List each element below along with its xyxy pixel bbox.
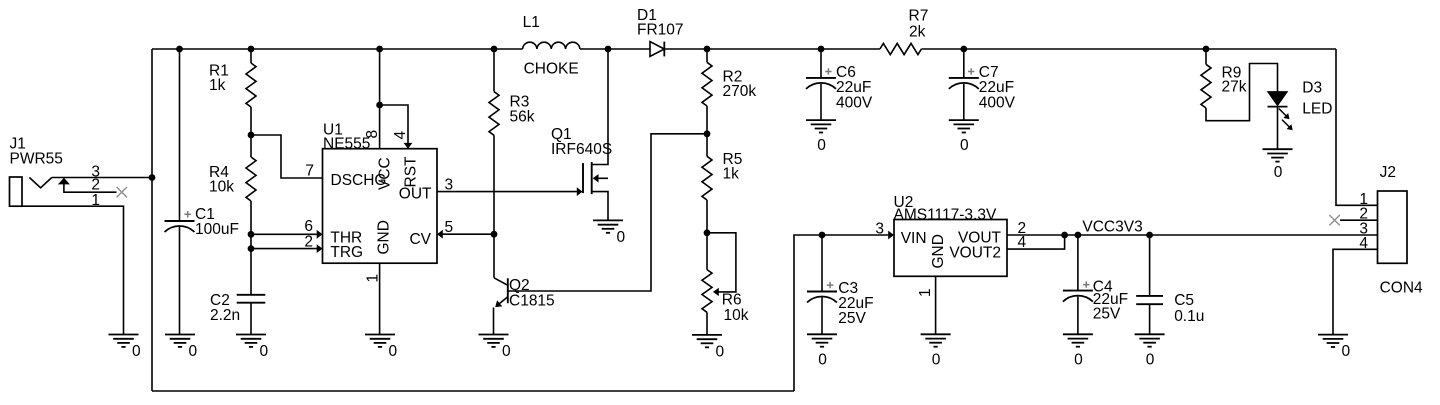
wire J2 pin 4 to ground bbox=[1333, 249, 1378, 334]
transistor Q2 C1815 bbox=[494, 277, 555, 335]
connector J1 PWR55 power jack bbox=[10, 136, 124, 335]
capacitor C1 100uF bbox=[165, 206, 239, 238]
wire top rail to R9 bbox=[1205, 49, 1207, 64]
svg-text:100uF: 100uF bbox=[195, 221, 239, 238]
junction R1-R4 node bbox=[248, 132, 255, 139]
wire top rail to R1 bbox=[250, 49, 252, 63]
svg-text:0: 0 bbox=[818, 351, 827, 368]
wire U2 VOUT to J2 pin 3 (VCC3V3 net) bbox=[1007, 234, 1378, 236]
capacitor C5 0.1u bbox=[1136, 292, 1204, 325]
svg-text:J2: J2 bbox=[1380, 164, 1396, 181]
svg-text:270k: 270k bbox=[723, 83, 757, 100]
ground below C2 bbox=[236, 335, 269, 361]
svg-text:VCC: VCC bbox=[377, 157, 394, 190]
svg-text:RST: RST bbox=[403, 156, 420, 188]
svg-text:R6: R6 bbox=[722, 292, 742, 309]
svg-text:C5: C5 bbox=[1174, 292, 1194, 309]
wire D3 cathode to ground bbox=[1277, 107, 1279, 150]
resistor R2 270k bbox=[702, 62, 756, 106]
junction C7 tap on top rail bbox=[960, 46, 967, 53]
svg-text:R7: R7 bbox=[909, 8, 929, 25]
svg-text:D3: D3 bbox=[1302, 80, 1322, 97]
ground below C6 bbox=[806, 120, 836, 154]
wire C3 to ground bbox=[821, 298, 823, 335]
svg-text:TRG: TRG bbox=[330, 244, 363, 261]
wire VCC input top rail bbox=[152, 48, 1336, 50]
svg-text:8: 8 bbox=[364, 130, 381, 139]
svg-text:L1: L1 bbox=[523, 14, 540, 31]
svg-text:LED: LED bbox=[1302, 100, 1332, 117]
wire C2 to ground bbox=[250, 303, 252, 335]
wire C7 to ground bbox=[963, 84, 965, 120]
arrow into U2 VIN bbox=[888, 231, 894, 240]
junction THR tap bbox=[248, 231, 255, 238]
wire C4 to ground bbox=[1077, 297, 1079, 335]
svg-text:1: 1 bbox=[91, 192, 100, 209]
junction Q1 drain / D1 anode on top rail bbox=[605, 46, 612, 53]
junction C1 tap on top rail bbox=[176, 46, 183, 53]
svg-text:IRF640S: IRF640S bbox=[551, 141, 612, 158]
wire R3 to CV node and Q2 base bbox=[493, 135, 495, 277]
svg-text:1k: 1k bbox=[209, 77, 226, 94]
svg-text:0: 0 bbox=[960, 137, 969, 154]
wire left rail from top rail to bottom rail bbox=[151, 49, 153, 391]
ground below U2 bbox=[921, 334, 951, 368]
wire top rail to R3 bbox=[493, 49, 495, 92]
no-connect X on J1 pin 2 bbox=[117, 187, 127, 197]
svg-text:0.1u: 0.1u bbox=[1174, 308, 1204, 325]
svg-text:27k: 27k bbox=[1222, 79, 1247, 96]
svg-text:0: 0 bbox=[1074, 351, 1083, 368]
wire R2 to R5 bbox=[706, 106, 708, 156]
wire R1 to R4 bbox=[250, 107, 252, 157]
wire U1 pin 4 RST bbox=[380, 105, 413, 149]
svg-text:CV: CV bbox=[409, 231, 431, 248]
svg-text:CHOKE: CHOKE bbox=[524, 61, 579, 78]
wire C1 to ground bbox=[179, 227, 181, 335]
inductor L1 CHOKE bbox=[523, 14, 580, 77]
ground below C5 bbox=[1135, 334, 1165, 368]
svg-text:400V: 400V bbox=[979, 94, 1016, 111]
wire U2 pin 1 GND to ground bbox=[935, 276, 937, 334]
wire J1 pin 3 to left rail bbox=[52, 177, 152, 179]
svg-text:2: 2 bbox=[304, 234, 313, 251]
junction R1 top on top rail bbox=[248, 46, 255, 53]
ground below Q1 bbox=[593, 220, 626, 246]
ground below R6 bbox=[692, 335, 725, 361]
resistor R7 2k bbox=[880, 8, 928, 55]
wire top rail to C7 bbox=[963, 49, 965, 78]
svg-text:0: 0 bbox=[132, 343, 141, 360]
capacitor C3 22uF 25V bbox=[807, 280, 874, 327]
wire VCC3V3 to C5 bbox=[1149, 235, 1151, 296]
op-amp timer U1 NE555 bbox=[304, 122, 453, 283]
junction C3 tap bbox=[819, 232, 826, 239]
svg-text:0: 0 bbox=[716, 343, 725, 360]
ground below Q2 bbox=[479, 335, 512, 361]
svg-text:FR107: FR107 bbox=[637, 22, 684, 39]
wire R1-R4 node to U1 pin 7 bbox=[251, 135, 323, 178]
svg-text:0: 0 bbox=[932, 351, 941, 368]
svg-text:GND: GND bbox=[375, 220, 392, 254]
junction U1 VCC tap on top rail bbox=[376, 46, 383, 53]
svg-text:VOUT2: VOUT2 bbox=[949, 244, 1001, 261]
svg-text:C1815: C1815 bbox=[509, 293, 555, 310]
junction VOUT2 join bbox=[1061, 232, 1068, 239]
LED D3 bbox=[1268, 80, 1333, 131]
svg-text:10k: 10k bbox=[209, 179, 234, 196]
svg-text:0: 0 bbox=[817, 137, 826, 154]
resistor R1 1k bbox=[209, 63, 256, 108]
svg-text:4: 4 bbox=[392, 131, 409, 140]
wire R9 to D3 anode bbox=[1206, 64, 1278, 121]
wire C5 to ground bbox=[1149, 304, 1151, 334]
ground below C7 bbox=[949, 120, 979, 154]
wire J2 pin 2 stub bbox=[1340, 219, 1378, 221]
wire riser from bottom rail to U2 VIN bbox=[794, 235, 889, 391]
svg-text:1k: 1k bbox=[723, 166, 740, 183]
svg-text:VIN: VIN bbox=[901, 230, 927, 247]
ground below C3 bbox=[807, 334, 837, 368]
wire top rail to C6 bbox=[820, 49, 822, 78]
wire R5 to R6 bbox=[706, 200, 708, 270]
junction R9 top on top rail bbox=[1203, 46, 1210, 53]
junction TRG tap bbox=[248, 245, 255, 252]
junction C4 tap bbox=[1075, 232, 1082, 239]
junction R2 top on top rail bbox=[704, 46, 711, 53]
svg-text:0: 0 bbox=[260, 343, 269, 360]
wire top rail to C1 bbox=[179, 49, 181, 221]
wire R6 to ground bbox=[706, 312, 708, 335]
ground below C1 bbox=[165, 335, 198, 361]
capacitor C7 22uF 400V bbox=[949, 64, 1016, 111]
capacitor C6 22uF 400V bbox=[806, 64, 873, 111]
connector J2 CON4 bbox=[1359, 164, 1423, 296]
junction R3 top on top rail bbox=[491, 46, 498, 53]
svg-text:CON4: CON4 bbox=[1380, 279, 1423, 296]
svg-text:25V: 25V bbox=[838, 310, 866, 327]
no-connect X on J2 pin 2 bbox=[1329, 215, 1339, 225]
potentiometer R6 10k bbox=[702, 233, 749, 324]
wire R4 to C2 bbox=[250, 201, 252, 295]
wire bottom supply rail bbox=[152, 390, 794, 392]
wire VIN node to C3 bbox=[821, 235, 823, 292]
svg-text:0: 0 bbox=[189, 343, 198, 360]
junction C6 tap on top rail bbox=[818, 46, 825, 53]
svg-text:2k: 2k bbox=[909, 24, 926, 41]
svg-text:GND: GND bbox=[930, 234, 947, 268]
svg-text:0: 0 bbox=[502, 343, 511, 360]
ground below C4 bbox=[1063, 334, 1093, 368]
svg-text:400V: 400V bbox=[836, 94, 873, 111]
wire Q2 collector to R2-R5 node bbox=[508, 134, 707, 291]
wire U1 pin 1 GND to ground bbox=[379, 263, 381, 334]
ground below D3 bbox=[1263, 149, 1293, 181]
svg-text:0: 0 bbox=[1342, 343, 1351, 360]
diode D1 FR107 bbox=[637, 7, 684, 56]
svg-text:0: 0 bbox=[617, 229, 626, 246]
wire to U1 pin 6 THR bbox=[251, 230, 323, 239]
junction C5 tap bbox=[1146, 232, 1153, 239]
wire C6 to ground bbox=[820, 84, 822, 120]
svg-text:0: 0 bbox=[389, 343, 398, 360]
resistor R3 56k bbox=[489, 92, 535, 136]
junction R5-R6 wiper node bbox=[704, 229, 711, 236]
svg-text:10k: 10k bbox=[724, 307, 749, 324]
svg-text:1: 1 bbox=[917, 288, 934, 297]
svg-text:7: 7 bbox=[305, 163, 314, 180]
resistor R9 27k bbox=[1201, 64, 1247, 108]
wire top rail to J2 pin 1 bbox=[1336, 49, 1378, 205]
wire U1 pin 3 OUT to Q1 gate bbox=[437, 187, 583, 196]
junction J1 pin 3 on left rail bbox=[149, 174, 156, 181]
svg-text:6: 6 bbox=[304, 218, 313, 235]
ground below U1 bbox=[365, 335, 398, 361]
svg-text:3: 3 bbox=[875, 221, 884, 238]
svg-text:25V: 25V bbox=[1093, 306, 1121, 323]
svg-text:VCC3V3: VCC3V3 bbox=[1082, 218, 1142, 235]
svg-text:PWR55: PWR55 bbox=[10, 150, 63, 167]
junction CV node bbox=[491, 231, 498, 238]
svg-text:0: 0 bbox=[1146, 351, 1155, 368]
junction pin8-pin4 node bbox=[376, 102, 383, 109]
resistor R5 1k bbox=[702, 151, 742, 200]
ground below J2 pin 4 bbox=[1318, 335, 1351, 361]
svg-text:AMS1117-3.3V: AMS1117-3.3V bbox=[894, 206, 997, 223]
svg-text:56k: 56k bbox=[510, 109, 535, 126]
wire top rail to U1 pin 8 VCC bbox=[379, 49, 381, 149]
junction R2-R5 node bbox=[704, 130, 711, 137]
capacitor C4 22uF 25V bbox=[1063, 279, 1128, 323]
capacitor C2 2.2n bbox=[210, 292, 265, 324]
ground below J1 bbox=[109, 335, 142, 361]
wire to U1 pin 2 TRG bbox=[251, 244, 323, 253]
wire VCC3V3 to C4 bbox=[1077, 235, 1079, 291]
node label VCC3V3 bbox=[1082, 218, 1142, 235]
regulator U2 AMS1117-3.3V bbox=[875, 194, 1026, 297]
wire top rail to R2 bbox=[706, 49, 708, 62]
svg-text:2.2n: 2.2n bbox=[210, 307, 240, 324]
resistor R4 10k bbox=[209, 157, 256, 201]
svg-text:0: 0 bbox=[1274, 164, 1283, 181]
transistor Q1 IRF640S bbox=[551, 49, 612, 220]
wire U1 pin 5 CV bbox=[437, 230, 494, 239]
wire U2 pin 4 VOUT2 join bbox=[1007, 235, 1065, 249]
